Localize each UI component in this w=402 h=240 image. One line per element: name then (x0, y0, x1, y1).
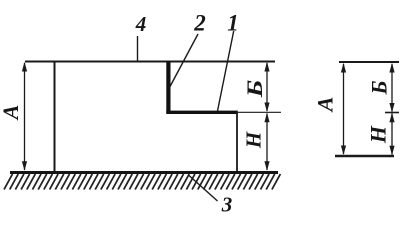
leader line 1 (218, 31, 234, 111)
hatching below ground (surface 3) (4, 174, 280, 190)
right diagram top line (339, 61, 399, 63)
dimension Н (main view) (264, 113, 269, 171)
svg-text:А: А (313, 97, 338, 114)
svg-text:2: 2 (193, 11, 206, 36)
svg-text:4: 4 (135, 12, 147, 36)
top surface line of block (surface 4) (25, 61, 275, 63)
svg-text:Н: Н (366, 125, 391, 144)
thick machined vertical surface (2) (166, 61, 170, 114)
thick machined step surface (1) (166, 111, 238, 114)
dimension Б (right diagram) (389, 63, 394, 113)
svg-text:Б: Б (367, 80, 392, 95)
dimension Б (main view) (264, 62, 269, 112)
dimension A (main view) (22, 62, 27, 171)
leader line 2 (170, 34, 199, 88)
right diagram bottom line (335, 155, 394, 157)
step extension line wire (237, 111, 281, 113)
svg-text:Н: Н (242, 131, 266, 149)
dimension Н (right diagram) (389, 113, 394, 156)
block right edge wire (236, 112, 238, 173)
svg-text:3: 3 (221, 193, 233, 215)
svg-text:Б: Б (243, 80, 267, 99)
boundary tick between Б and Н (right diagram) (385, 112, 399, 114)
svg-text:1: 1 (227, 11, 239, 36)
dimension A (right diagram) (341, 63, 346, 155)
block left edge wire (54, 61, 56, 172)
leader line 4 (137, 36, 139, 61)
svg-text:А: А (0, 105, 23, 122)
ground/table line (surface 3) (10, 171, 278, 174)
leader line 3 (189, 176, 218, 202)
